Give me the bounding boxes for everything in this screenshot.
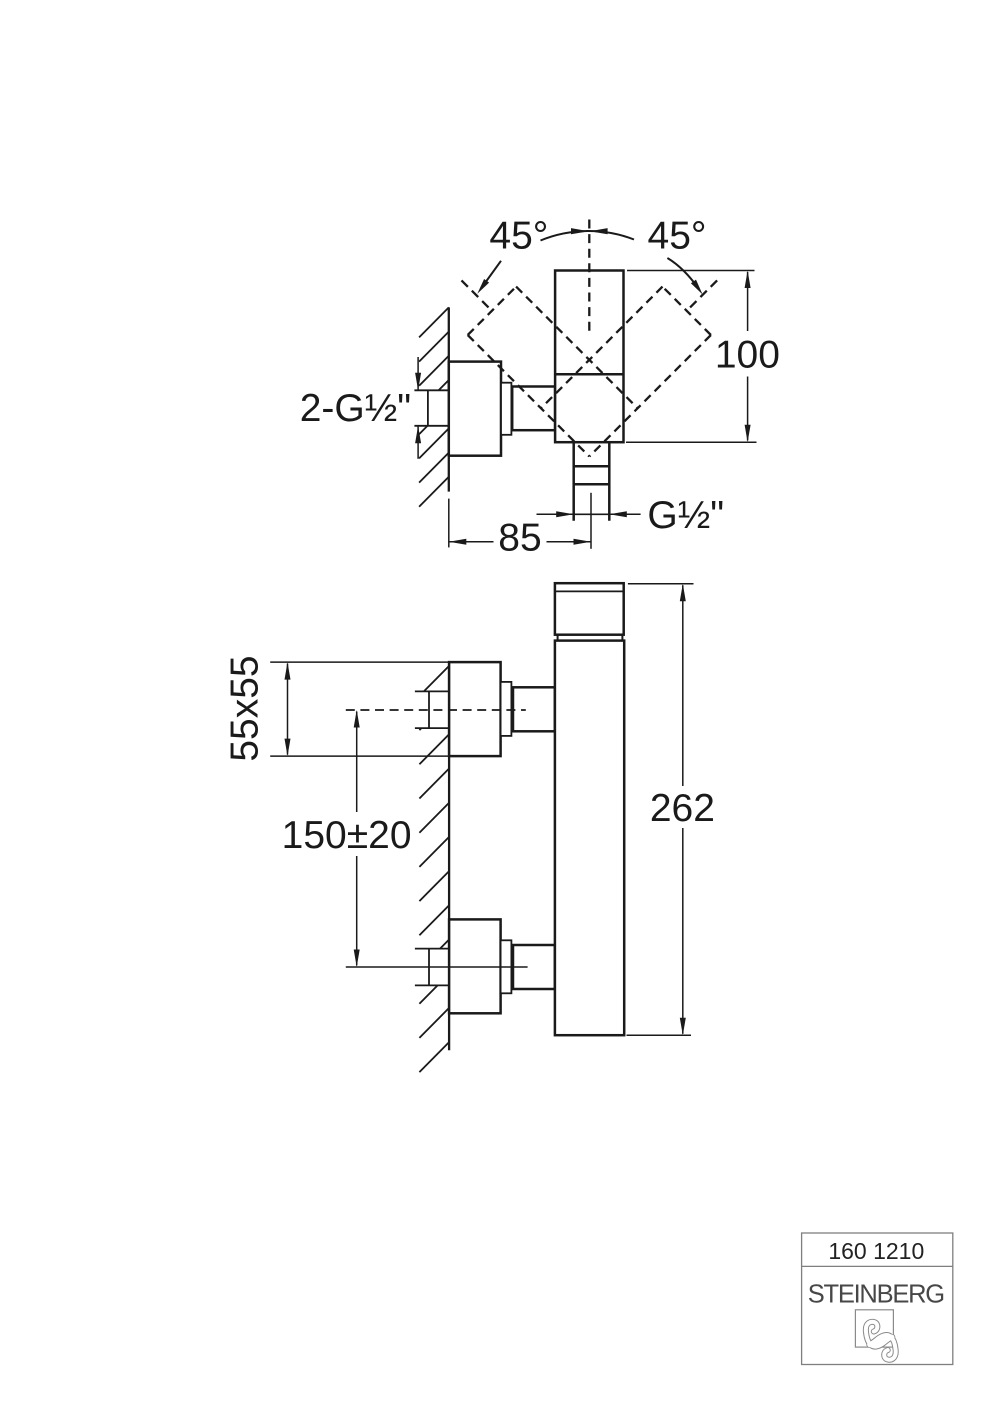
dimension 150+-20 bbox=[356, 712, 358, 813]
top view: mixer body bbox=[555, 271, 623, 443]
top view: leader arrow left 45deg bbox=[481, 261, 501, 289]
top view: connector pipe bbox=[512, 387, 555, 431]
svg-text:55x55: 55x55 bbox=[223, 655, 266, 761]
lower view: upper flange bbox=[501, 682, 512, 736]
top view: dashed handle square rotated +45 bbox=[663, 287, 711, 335]
lower view: wall hatching bbox=[419, 666, 449, 696]
lower view: lower solid centerline bbox=[346, 966, 528, 968]
top view: dashed rotated axis stub left bbox=[462, 280, 493, 311]
top view: 45deg swivel arc bbox=[541, 231, 635, 241]
svg-text:2-G½": 2-G½" bbox=[300, 387, 411, 430]
title block divider bbox=[802, 1265, 953, 1267]
svg-text:G½": G½" bbox=[647, 494, 724, 537]
lower view: mixer main body bbox=[555, 641, 624, 1036]
top view: dashed handle square rotated -45 bbox=[468, 287, 516, 335]
svg-text:45°: 45° bbox=[489, 215, 548, 258]
top view: pipe size dimension arrows bbox=[417, 357, 419, 390]
logo curl bbox=[866, 1322, 896, 1360]
top view: body internal line bbox=[555, 373, 623, 376]
top view: leader arrow right 45deg bbox=[667, 258, 698, 289]
top view: spout centerline extension bbox=[590, 493, 592, 549]
lower view: upper valve body bbox=[449, 662, 501, 756]
svg-text:85: 85 bbox=[498, 517, 541, 560]
logo square bbox=[855, 1310, 893, 1347]
top view: flange bbox=[501, 383, 511, 435]
top view: spout outlet bbox=[572, 442, 575, 521]
title block box bbox=[802, 1233, 953, 1365]
svg-text:45°: 45° bbox=[648, 215, 707, 258]
lower view: lower valve body bbox=[449, 919, 501, 1013]
lower view: top cap bbox=[555, 583, 624, 635]
svg-text:160 1210: 160 1210 bbox=[828, 1238, 924, 1264]
lower view: upper supply pipe bbox=[415, 691, 449, 728]
top view: wall line bbox=[448, 307, 450, 491]
lower view: upper dashed centerline bbox=[346, 709, 526, 711]
top view: dashed rotated axis stub right bbox=[686, 280, 717, 311]
svg-text:100: 100 bbox=[715, 333, 780, 376]
lower view: upper connector bbox=[513, 687, 555, 731]
top view: vertical dashed centerline bbox=[588, 220, 590, 334]
dimension G1/2" of spout bbox=[537, 513, 574, 515]
top view: wall valve body bbox=[449, 362, 501, 456]
lower view: wall line bbox=[448, 662, 450, 1050]
lower view: lower supply pipe bbox=[415, 949, 449, 986]
lower view: neck between cap and body bbox=[557, 635, 559, 641]
top view: supply pipe G1/2 behind wall bbox=[414, 390, 448, 426]
dimension 262 bbox=[628, 583, 694, 585]
svg-text:STEINBERG: STEINBERG bbox=[808, 1281, 944, 1309]
svg-text:150±20: 150±20 bbox=[282, 814, 412, 857]
dimension 55x55 bbox=[270, 661, 500, 663]
lower view: lower flange bbox=[501, 940, 512, 993]
svg-text:262: 262 bbox=[650, 787, 715, 830]
lower view: lower connector bbox=[513, 945, 555, 989]
top view: wall hatching bbox=[419, 307, 449, 337]
dimension 100 bbox=[627, 270, 755, 272]
dimension 85 bbox=[448, 499, 450, 548]
